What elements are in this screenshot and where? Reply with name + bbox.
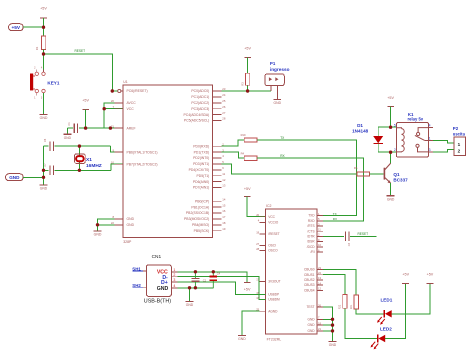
- CN1 pin 3 stub: [171, 278, 177, 282]
- svg-text:PB4(MISO): PB4(MISO): [192, 223, 209, 227]
- svg-text:USBDP: USBDP: [268, 293, 279, 297]
- svg-text:+5V: +5V: [387, 96, 394, 100]
- svg-text:21: 21: [318, 327, 321, 331]
- svg-text:VCC: VCC: [127, 107, 135, 111]
- svg-text:14: 14: [318, 281, 321, 285]
- wire CBUS1 to R22: [323, 275, 345, 295]
- svg-text:FT232RL: FT232RL: [267, 337, 282, 341]
- IC2 pin 26 TEST: [306, 303, 322, 309]
- svg-text:VCCIO: VCCIO: [268, 220, 279, 224]
- U1 pin 26 PC3(ADC3): [191, 105, 225, 111]
- svg-text:PC6(/RESET): PC6(/RESET): [127, 89, 148, 93]
- CN1 pin 1 stub: [171, 268, 177, 272]
- svg-text:18: 18: [222, 221, 226, 225]
- svg-text:SH2: SH2: [132, 283, 141, 288]
- wire relay net to Q1 collector: [390, 152, 392, 163]
- svg-text:PC0(ADC0): PC0(ADC0): [191, 89, 209, 93]
- svg-text:/RI: /RI: [311, 250, 315, 254]
- junction dot 9: [42, 169, 45, 172]
- svg-text:GND: GND: [9, 175, 20, 180]
- wire AVCC branch: [104, 103, 123, 128]
- resistor R3: [241, 73, 250, 85]
- svg-text:P2: P2: [453, 126, 459, 131]
- wire usb gnd to ground symbol: [189, 288, 191, 301]
- svg-text:C4: C4: [217, 271, 221, 275]
- IC2 pin 3 /RTS: [307, 222, 323, 228]
- svg-text:C3: C3: [348, 242, 351, 246]
- svg-text:C6: C6: [43, 138, 47, 142]
- net usb ground wire: [177, 287, 213, 289]
- svg-text:/RESET: /RESET: [268, 232, 280, 236]
- svg-text:26: 26: [318, 303, 321, 307]
- svg-text:+5V: +5V: [244, 288, 251, 292]
- svg-text:+5V: +5V: [11, 25, 20, 31]
- svg-text:PD5(T1): PD5(T1): [196, 174, 209, 178]
- svg-text:3: 3: [41, 96, 43, 99]
- K1 pin 1 stub: [429, 136, 433, 140]
- ground symbol at C1: [64, 128, 72, 140]
- svg-text:CBUS3: CBUS3: [304, 283, 315, 287]
- connector P1: [265, 74, 284, 86]
- ground symbol Q1: [387, 196, 395, 202]
- svg-text:R1: R1: [35, 46, 39, 50]
- svg-text:R3: R3: [241, 82, 245, 86]
- svg-text:C2: C2: [203, 278, 207, 282]
- resistor R1: [35, 36, 46, 50]
- op IC2 FT232RL body: [266, 204, 318, 341]
- op IC U1 ATmega328 body: [123, 80, 213, 244]
- svg-text:13: 13: [318, 276, 321, 280]
- wire node down to R1: [43, 27, 45, 36]
- svg-text:22: 22: [318, 271, 321, 275]
- K1 pin 4 stub: [429, 124, 433, 128]
- svg-text:10: 10: [318, 243, 321, 247]
- svg-text:RESET: RESET: [75, 49, 86, 53]
- LED LED2: [371, 335, 386, 350]
- junction dot 11: [96, 223, 99, 226]
- svg-text:1: 1: [173, 268, 175, 272]
- svg-text:OSCO: OSCO: [268, 249, 278, 253]
- svg-text:11: 11: [222, 172, 225, 176]
- svg-text:GND: GND: [308, 317, 316, 321]
- wire coil bottom net: [378, 151, 396, 153]
- capacitor C2: [191, 272, 206, 288]
- LED LED1: [377, 310, 392, 325]
- svg-text:328P: 328P: [123, 240, 132, 244]
- wire XTAL1 to U1 PB6: [111, 146, 123, 152]
- junction dot 6: [103, 107, 106, 110]
- CN1 pin SH2: [132, 283, 146, 288]
- junction dot 12: [246, 89, 249, 92]
- power +5V symbol LED2 (inverted): [402, 272, 409, 283]
- wire GND badge to cap common: [23, 176, 43, 178]
- svg-text:ingresso: ingresso: [270, 67, 290, 72]
- U1 pin 4 PD2(INT0): [193, 154, 224, 160]
- junction dot 10: [42, 176, 45, 179]
- svg-text:RX: RX: [333, 217, 337, 221]
- svg-text:16MHZ: 16MHZ: [86, 163, 102, 169]
- svg-text:OSCI: OSCI: [268, 244, 276, 248]
- svg-text:PB5(SCK): PB5(SCK): [194, 229, 210, 233]
- svg-text:CBUS0: CBUS0: [304, 268, 315, 272]
- wire PC0 to P1: [221, 90, 271, 92]
- svg-text:GND: GND: [64, 136, 72, 140]
- wire reset node to KEY1: [43, 54, 45, 72]
- IC2 pin 15 USBDP: [256, 291, 279, 297]
- svg-text:GND: GND: [94, 233, 102, 237]
- U1 pin 25 PC2(ADC2): [191, 99, 225, 105]
- IC2 pin 10 /DCD: [307, 243, 323, 249]
- svg-text:GND: GND: [308, 329, 316, 333]
- wire R3 to PC0 net: [247, 85, 249, 91]
- capacitor C6 (XTAL1): [43, 138, 111, 151]
- capacitor C3: [345, 232, 351, 247]
- svg-text:RESET: RESET: [358, 232, 369, 236]
- junction dot 7: [78, 144, 81, 147]
- svg-text:PB3(MOSI/OC2): PB3(MOSI/OC2): [184, 217, 209, 221]
- net TX wire: [257, 140, 357, 216]
- svg-text:5: 5: [394, 124, 396, 128]
- svg-text:18: 18: [318, 321, 321, 325]
- resistor R21: [350, 295, 358, 309]
- svg-text:X1: X1: [86, 157, 92, 163]
- wire P1 pin2 to ground: [276, 86, 278, 100]
- svg-text:25: 25: [222, 99, 226, 103]
- svg-text:GND: GND: [127, 217, 135, 221]
- svg-text:PD4(XCK/T0): PD4(XCK/T0): [189, 168, 210, 172]
- svg-text:TXD: TXD: [308, 214, 315, 218]
- ground symbol CN1: [186, 301, 194, 307]
- U1 pin 11 PD5(T1): [196, 172, 225, 178]
- svg-text:GND: GND: [40, 186, 48, 190]
- wire LED2 to +5V: [385, 284, 406, 339]
- wire GND pin18: [323, 324, 333, 326]
- svg-text:PB2(SS/OC1B): PB2(SS/OC1B): [186, 211, 209, 215]
- junction dot 17: [331, 329, 334, 332]
- svg-text:4: 4: [222, 154, 224, 158]
- U1 pin 19 PB5(SCK): [194, 227, 226, 233]
- U1 pin 18 PB4(MISO): [192, 221, 226, 227]
- wire LED1 to +5V: [392, 284, 430, 314]
- U1 pin 2 PD0(RXD): [193, 142, 224, 148]
- U1 pin 13 PD7(AIN1): [193, 184, 226, 190]
- switch KEY1: [30, 67, 45, 100]
- wire R1 to reset node: [43, 50, 45, 54]
- wire coil top net: [378, 126, 396, 128]
- wire PD0 to R19: [221, 140, 244, 146]
- IC2 pin 4 VCCIO: [258, 219, 279, 225]
- IC2 pin 13 CBUS2: [304, 276, 323, 282]
- svg-text:3V3OUT: 3V3OUT: [268, 280, 280, 284]
- svg-text:12: 12: [318, 287, 321, 291]
- svg-text:P1: P1: [270, 61, 276, 66]
- svg-text:12: 12: [222, 178, 226, 182]
- resistor R19: [241, 133, 257, 142]
- junction dot 15: [331, 318, 334, 321]
- svg-text:R22: R22: [339, 304, 342, 309]
- svg-text:C1: C1: [67, 122, 71, 126]
- resistor R22: [339, 294, 347, 309]
- svg-text:PC3(ADC3): PC3(ADC3): [191, 107, 209, 111]
- svg-text:GND: GND: [329, 343, 337, 347]
- svg-text:+5V: +5V: [40, 7, 47, 11]
- wire to U1 ground symbol: [97, 225, 99, 231]
- svg-text:LED2: LED2: [380, 327, 392, 332]
- ground symbol IC2: [329, 341, 337, 347]
- wire GND pin21: [323, 330, 333, 332]
- svg-text:PD0(RXD): PD0(RXD): [193, 144, 209, 148]
- svg-text:AREF: AREF: [127, 126, 136, 130]
- svg-text:GND: GND: [387, 197, 395, 201]
- U1 pin 21 AREF: [111, 124, 136, 130]
- wire AGND to ground: [242, 311, 260, 335]
- capacitor C4: [210, 271, 221, 288]
- svg-text:TX: TX: [333, 212, 337, 216]
- svg-text:3: 3: [173, 278, 175, 282]
- IC2 pin 14 CBUS3: [304, 281, 323, 287]
- svg-text:/DTR: /DTR: [307, 235, 315, 239]
- svg-text:CBUS1: CBUS1: [304, 273, 315, 277]
- svg-text:17: 17: [222, 215, 226, 219]
- U1 pin 9 PB6(XTAL1/TOSC1): [112, 148, 157, 154]
- junction dot 2: [42, 52, 45, 55]
- wire CBUS0 to R21: [323, 270, 356, 295]
- svg-text:GND: GND: [127, 223, 135, 227]
- svg-text:2: 2: [34, 67, 36, 70]
- wire R6 to Q1 base: [370, 173, 384, 175]
- svg-text:1: 1: [458, 142, 461, 147]
- svg-text:/DSR: /DSR: [307, 240, 315, 244]
- wire Q1 emitter to ground: [390, 183, 392, 195]
- svg-text:/RTS: /RTS: [307, 224, 314, 228]
- svg-text:28: 28: [256, 247, 259, 251]
- U1 pin 24 PC1(ADC1): [191, 93, 225, 99]
- svg-text:AVCC: AVCC: [127, 101, 137, 105]
- svg-text:PB0(ICP): PB0(ICP): [195, 199, 209, 203]
- connector CN1 USB-B: [146, 265, 171, 297]
- wire XTAL2 to U1 PB7: [111, 164, 123, 170]
- svg-text:/DCD: /DCD: [307, 245, 315, 249]
- svg-text:3: 3: [429, 148, 431, 152]
- U1 pin 14 PB0(ICP): [195, 197, 226, 203]
- svg-text:19: 19: [256, 230, 259, 234]
- svg-text:R19: R19: [241, 133, 246, 137]
- svg-text:PB7(XTAL2/TOSC2): PB7(XTAL2/TOSC2): [127, 162, 158, 166]
- IC2 pin 9 /DSR: [307, 238, 323, 244]
- svg-text:LED1: LED1: [381, 298, 393, 303]
- wire relay pin3 to P2: [433, 149, 454, 152]
- svg-text:CBUS2: CBUS2: [304, 278, 315, 282]
- CN1 pin SH1: [132, 266, 146, 271]
- IC2 pin 12 CBUS4: [304, 287, 323, 293]
- svg-text:PB6(XTAL1/TOSC1): PB6(XTAL1/TOSC1): [127, 150, 158, 154]
- svg-text:GND: GND: [238, 337, 246, 341]
- junction dot 8: [78, 169, 81, 172]
- svg-text:USB-B(TH): USB-B(TH): [144, 298, 171, 304]
- wire PD1 to R4: [221, 152, 244, 158]
- ground symbol U1: [94, 231, 102, 237]
- net RX wire: [257, 158, 364, 221]
- IC2 pin 17 3V3OUT: [256, 278, 280, 284]
- U1 pin 1 PC6(/RESET): [127, 89, 148, 93]
- K1 pin 3 stub: [429, 148, 433, 152]
- svg-text:TX: TX: [280, 136, 285, 140]
- wire TEST to ground rail: [323, 307, 333, 341]
- power +5V symbol relay: [387, 96, 394, 127]
- wire R21 to LED1: [356, 309, 383, 314]
- svg-text:PD1(TXD): PD1(TXD): [194, 150, 210, 154]
- capacitor C1: [67, 122, 86, 133]
- resistor R4: [241, 151, 257, 160]
- svg-text:23: 23: [318, 266, 321, 270]
- svg-text:PC5(ADC5/SCL): PC5(ADC5/SCL): [184, 119, 209, 123]
- junction dot 14: [389, 151, 392, 154]
- svg-text:+5V: +5V: [402, 272, 409, 276]
- svg-text:2: 2: [173, 273, 175, 277]
- svg-text:19: 19: [222, 227, 226, 231]
- U1 pin 27 PC4(ADC4/SDA): [183, 111, 225, 117]
- U1 pin 10 PB7(XTAL2/TOSC2): [111, 160, 158, 166]
- junction dot 13: [389, 126, 392, 129]
- svg-text:U1: U1: [123, 80, 128, 84]
- U1 pin 5 PD3(INT1): [193, 160, 224, 166]
- IC2 pin 20 VCC: [256, 213, 275, 219]
- svg-text:R21: R21: [350, 304, 353, 309]
- CN1 pin 2 stub: [171, 273, 177, 277]
- IC2 pin 25 AGND: [256, 308, 278, 314]
- junction dot 19: [212, 270, 215, 273]
- junction dot 16: [331, 323, 334, 326]
- wire VCC branch: [104, 108, 123, 110]
- IC2 pin 2 /DTR: [307, 233, 323, 239]
- svg-text:R6: R6: [354, 166, 358, 170]
- svg-text:4: 4: [429, 124, 431, 128]
- U1 pin 15 PB1(OC1A): [191, 203, 225, 209]
- wire U1 GND pin 22: [98, 224, 115, 226]
- U1 pin 12 PD6(AIN0): [193, 178, 226, 184]
- svg-text:TEST: TEST: [306, 305, 314, 309]
- wire PD3 to R6: [221, 164, 357, 174]
- svg-text:10: 10: [111, 160, 115, 164]
- svg-text:R4: R4: [241, 151, 245, 155]
- wire relay pin1 to P2: [433, 140, 454, 143]
- wire DTR to C3: [323, 235, 344, 237]
- svg-text:RXD: RXD: [308, 219, 315, 223]
- svg-text:PD7(AIN1): PD7(AIN1): [193, 186, 209, 190]
- wire crystal caps common: [43, 146, 45, 185]
- U1 pin 3 PD1(TXD): [194, 148, 225, 154]
- IC2 pin 18 GND: [308, 321, 323, 327]
- IC2 pin 21 GND: [308, 327, 323, 333]
- svg-text:+5V: +5V: [244, 46, 251, 50]
- power +5V symbol at P1 pull-up: [244, 46, 251, 73]
- svg-text:BC337: BC337: [393, 178, 408, 183]
- svg-text:relay 5v: relay 5v: [408, 117, 424, 122]
- svg-text:4: 4: [258, 219, 260, 223]
- svg-text:PB1(OC1A): PB1(OC1A): [191, 205, 209, 209]
- IC2 pin 27 OSCI: [256, 242, 276, 248]
- svg-text:CN1: CN1: [152, 254, 162, 260]
- junction dot 4: [84, 126, 87, 129]
- U1 pin 22 GND: [111, 221, 135, 227]
- svg-text:28: 28: [222, 117, 226, 121]
- svg-text:+5V: +5V: [244, 187, 251, 191]
- crystal X1: [75, 146, 86, 170]
- IC2 pin 16 USBDM: [256, 296, 280, 302]
- wire R22 to LED2: [345, 308, 377, 338]
- net USBDP wire (D+): [177, 282, 265, 295]
- svg-text:GND: GND: [308, 323, 316, 327]
- svg-text:IC2: IC2: [266, 204, 272, 208]
- U1 pin 20 AVCC: [111, 99, 136, 105]
- net RESET wire at C3: [350, 235, 377, 237]
- relay K1: [396, 123, 428, 157]
- svg-text:2: 2: [458, 149, 461, 154]
- diode D1: [373, 127, 383, 152]
- net RESET wire to U1: [44, 54, 113, 91]
- svg-text:SH1: SH1: [132, 266, 141, 271]
- IC2 pin 6 /RI: [311, 248, 323, 254]
- transistor Q1: [384, 163, 391, 183]
- U1 pin 23 PC0(ADC0): [191, 87, 225, 93]
- svg-text:2: 2: [394, 148, 396, 152]
- svg-text:20: 20: [111, 99, 115, 103]
- wire into PC6 inverted pin: [112, 89, 123, 92]
- svg-text:VCC: VCC: [268, 215, 275, 219]
- junction dot 3: [111, 89, 114, 92]
- U1 pin 28 PC5(ADC5/SCL): [184, 117, 226, 123]
- svg-text:RX: RX: [280, 154, 285, 158]
- svg-text:14: 14: [222, 197, 226, 201]
- wire KEY1 to ground: [43, 93, 45, 115]
- svg-text:GND: GND: [157, 286, 169, 292]
- power +5V symbol CN1 (inverted): [244, 283, 251, 292]
- power +5V symbol at AREF net: [82, 98, 89, 128]
- IC2 pin 19 /RESET: [256, 230, 280, 236]
- svg-text:CBUS4: CBUS4: [304, 288, 315, 292]
- ground symbol crystal: [40, 185, 48, 191]
- IC2 pin 5 RXD: [308, 217, 323, 223]
- svg-text:20: 20: [256, 213, 259, 217]
- svg-text:13: 13: [222, 184, 226, 188]
- junction dot 18: [194, 270, 197, 273]
- svg-text:uscita: uscita: [453, 132, 466, 137]
- svg-text:GND: GND: [274, 101, 282, 105]
- U1 pin 16 PB2(SS/OC1B): [186, 209, 226, 215]
- U1 pin 7 VCC: [112, 105, 134, 111]
- svg-text:+5V: +5V: [82, 98, 89, 102]
- svg-text:+5V: +5V: [427, 272, 434, 276]
- junction dot 5: [109, 126, 112, 129]
- wire U1 GND pin 8: [98, 219, 115, 225]
- svg-text:24: 24: [222, 93, 226, 97]
- svg-text:PC1(ADC1): PC1(ADC1): [191, 95, 209, 99]
- svg-text:PD2(INT0): PD2(INT0): [193, 156, 209, 160]
- svg-text:16: 16: [222, 209, 226, 213]
- svg-text:PC2(ADC2): PC2(ADC2): [191, 101, 209, 105]
- svg-text:26: 26: [222, 105, 226, 109]
- svg-text:GND: GND: [40, 116, 48, 120]
- svg-text:27: 27: [256, 242, 259, 246]
- power +5V symbol (reset pull-up): [40, 7, 47, 28]
- IC2 pin 28 OSCO: [256, 247, 278, 253]
- IC2 pin 22 CBUS1: [304, 271, 323, 277]
- svg-text:AGND: AGND: [268, 309, 278, 313]
- svg-text:4: 4: [41, 67, 43, 70]
- svg-text:/CTS: /CTS: [307, 229, 314, 233]
- wire P1 pin1 down: [270, 86, 272, 91]
- svg-text:PD3(INT1): PD3(INT1): [193, 162, 209, 166]
